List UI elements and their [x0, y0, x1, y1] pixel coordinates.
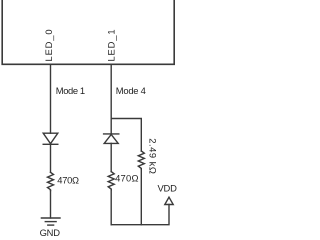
wire branch to R3	[111, 119, 141, 152]
svg-text:470Ω: 470Ω	[115, 172, 139, 183]
resistor R3 2.49k zigzag	[138, 151, 144, 169]
wire D2 to R2	[110, 143, 112, 171]
svg-text:2.49 kΩ: 2.49 kΩ	[147, 138, 158, 174]
wire R3 to bottom rail	[140, 169, 142, 224]
svg-text:470Ω: 470Ω	[57, 174, 79, 185]
svg-text:LED_1: LED_1	[105, 29, 116, 62]
IC box (top, cropped)	[2, 0, 174, 64]
svg-text:Mode 1: Mode 1	[56, 85, 85, 96]
ground bar 2	[45, 221, 56, 223]
resistor R1 470 ohm zigzag	[48, 172, 54, 190]
wire R1 to ground	[50, 191, 52, 218]
VDD power symbol triangle	[165, 197, 173, 204]
ground bar 1	[41, 217, 60, 219]
ground bar 3	[48, 224, 54, 226]
diode D2 (anode down, points up)	[104, 135, 118, 144]
diode D1 (cathode down)	[43, 133, 58, 143]
wire D1 to R1	[50, 144, 52, 173]
svg-text:GND: GND	[40, 227, 61, 238]
diode D1 cathode bar	[43, 143, 58, 145]
wire LED_0 net	[50, 64, 52, 133]
bottom rail wire to VDD	[111, 205, 169, 225]
svg-text:VDD: VDD	[158, 183, 178, 194]
wire R2 to bottom rail	[110, 190, 112, 225]
svg-text:LED_0: LED_0	[43, 29, 54, 62]
resistor R2 470 ohm zigzag	[108, 172, 114, 190]
svg-text:Mode 4: Mode 4	[116, 85, 146, 96]
wire LED_1 net	[110, 64, 112, 134]
diode D2 cathode bar (up)	[104, 133, 119, 135]
